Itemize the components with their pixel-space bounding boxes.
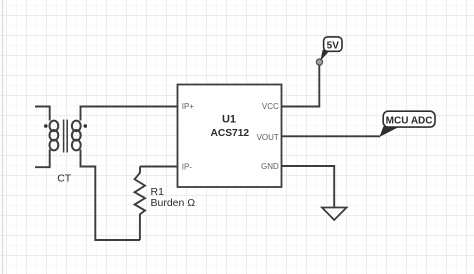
- svg-text:VOUT: VOUT: [257, 133, 279, 142]
- primary phase dot: [44, 124, 48, 128]
- svg-text:Burden Ω: Burden Ω: [151, 197, 196, 209]
- wire: secondary top to IP+: [81, 107, 178, 121]
- svg-text:5V: 5V: [327, 40, 340, 51]
- callout tail 5V: [320, 50, 328, 61]
- ground: [322, 208, 347, 221]
- transformer CT core: [64, 120, 68, 153]
- svg-text:MCU ADC: MCU ADC: [386, 115, 433, 126]
- node dot 5V: [316, 59, 322, 65]
- secondary phase dot: [84, 124, 88, 128]
- wire: secondary bottom to bottom rail: [81, 150, 141, 241]
- svg-text:GND: GND: [261, 162, 279, 171]
- svg-text:IP-: IP-: [182, 162, 193, 171]
- wire: GND pin to ground: [282, 166, 335, 207]
- wire: CT primary top lead: [35, 107, 50, 121]
- svg-text:U1: U1: [222, 114, 236, 126]
- transformer CT secondary winding: [72, 121, 81, 151]
- wire: CT primary bottom lead: [35, 150, 50, 168]
- callout box 5V: [324, 37, 342, 51]
- wire: IP- to resistor top: [140, 166, 178, 168]
- IC U1 ACS712 body: [178, 85, 282, 188]
- svg-text:ACS712: ACS712: [211, 128, 250, 139]
- svg-text:VCC: VCC: [262, 102, 279, 111]
- svg-text:IP+: IP+: [182, 102, 195, 111]
- page left border: [2, 0, 4, 274]
- resistor R1: [135, 167, 145, 241]
- wire: VCC to 5V node: [282, 63, 320, 107]
- svg-text:CT: CT: [57, 173, 72, 185]
- callout box MCU ADC: [383, 111, 435, 127]
- transformer CT primary winding: [50, 121, 59, 151]
- wire: VOUT to MCU ADC: [282, 135, 380, 137]
- callout tail MCU ADC: [380, 126, 401, 136]
